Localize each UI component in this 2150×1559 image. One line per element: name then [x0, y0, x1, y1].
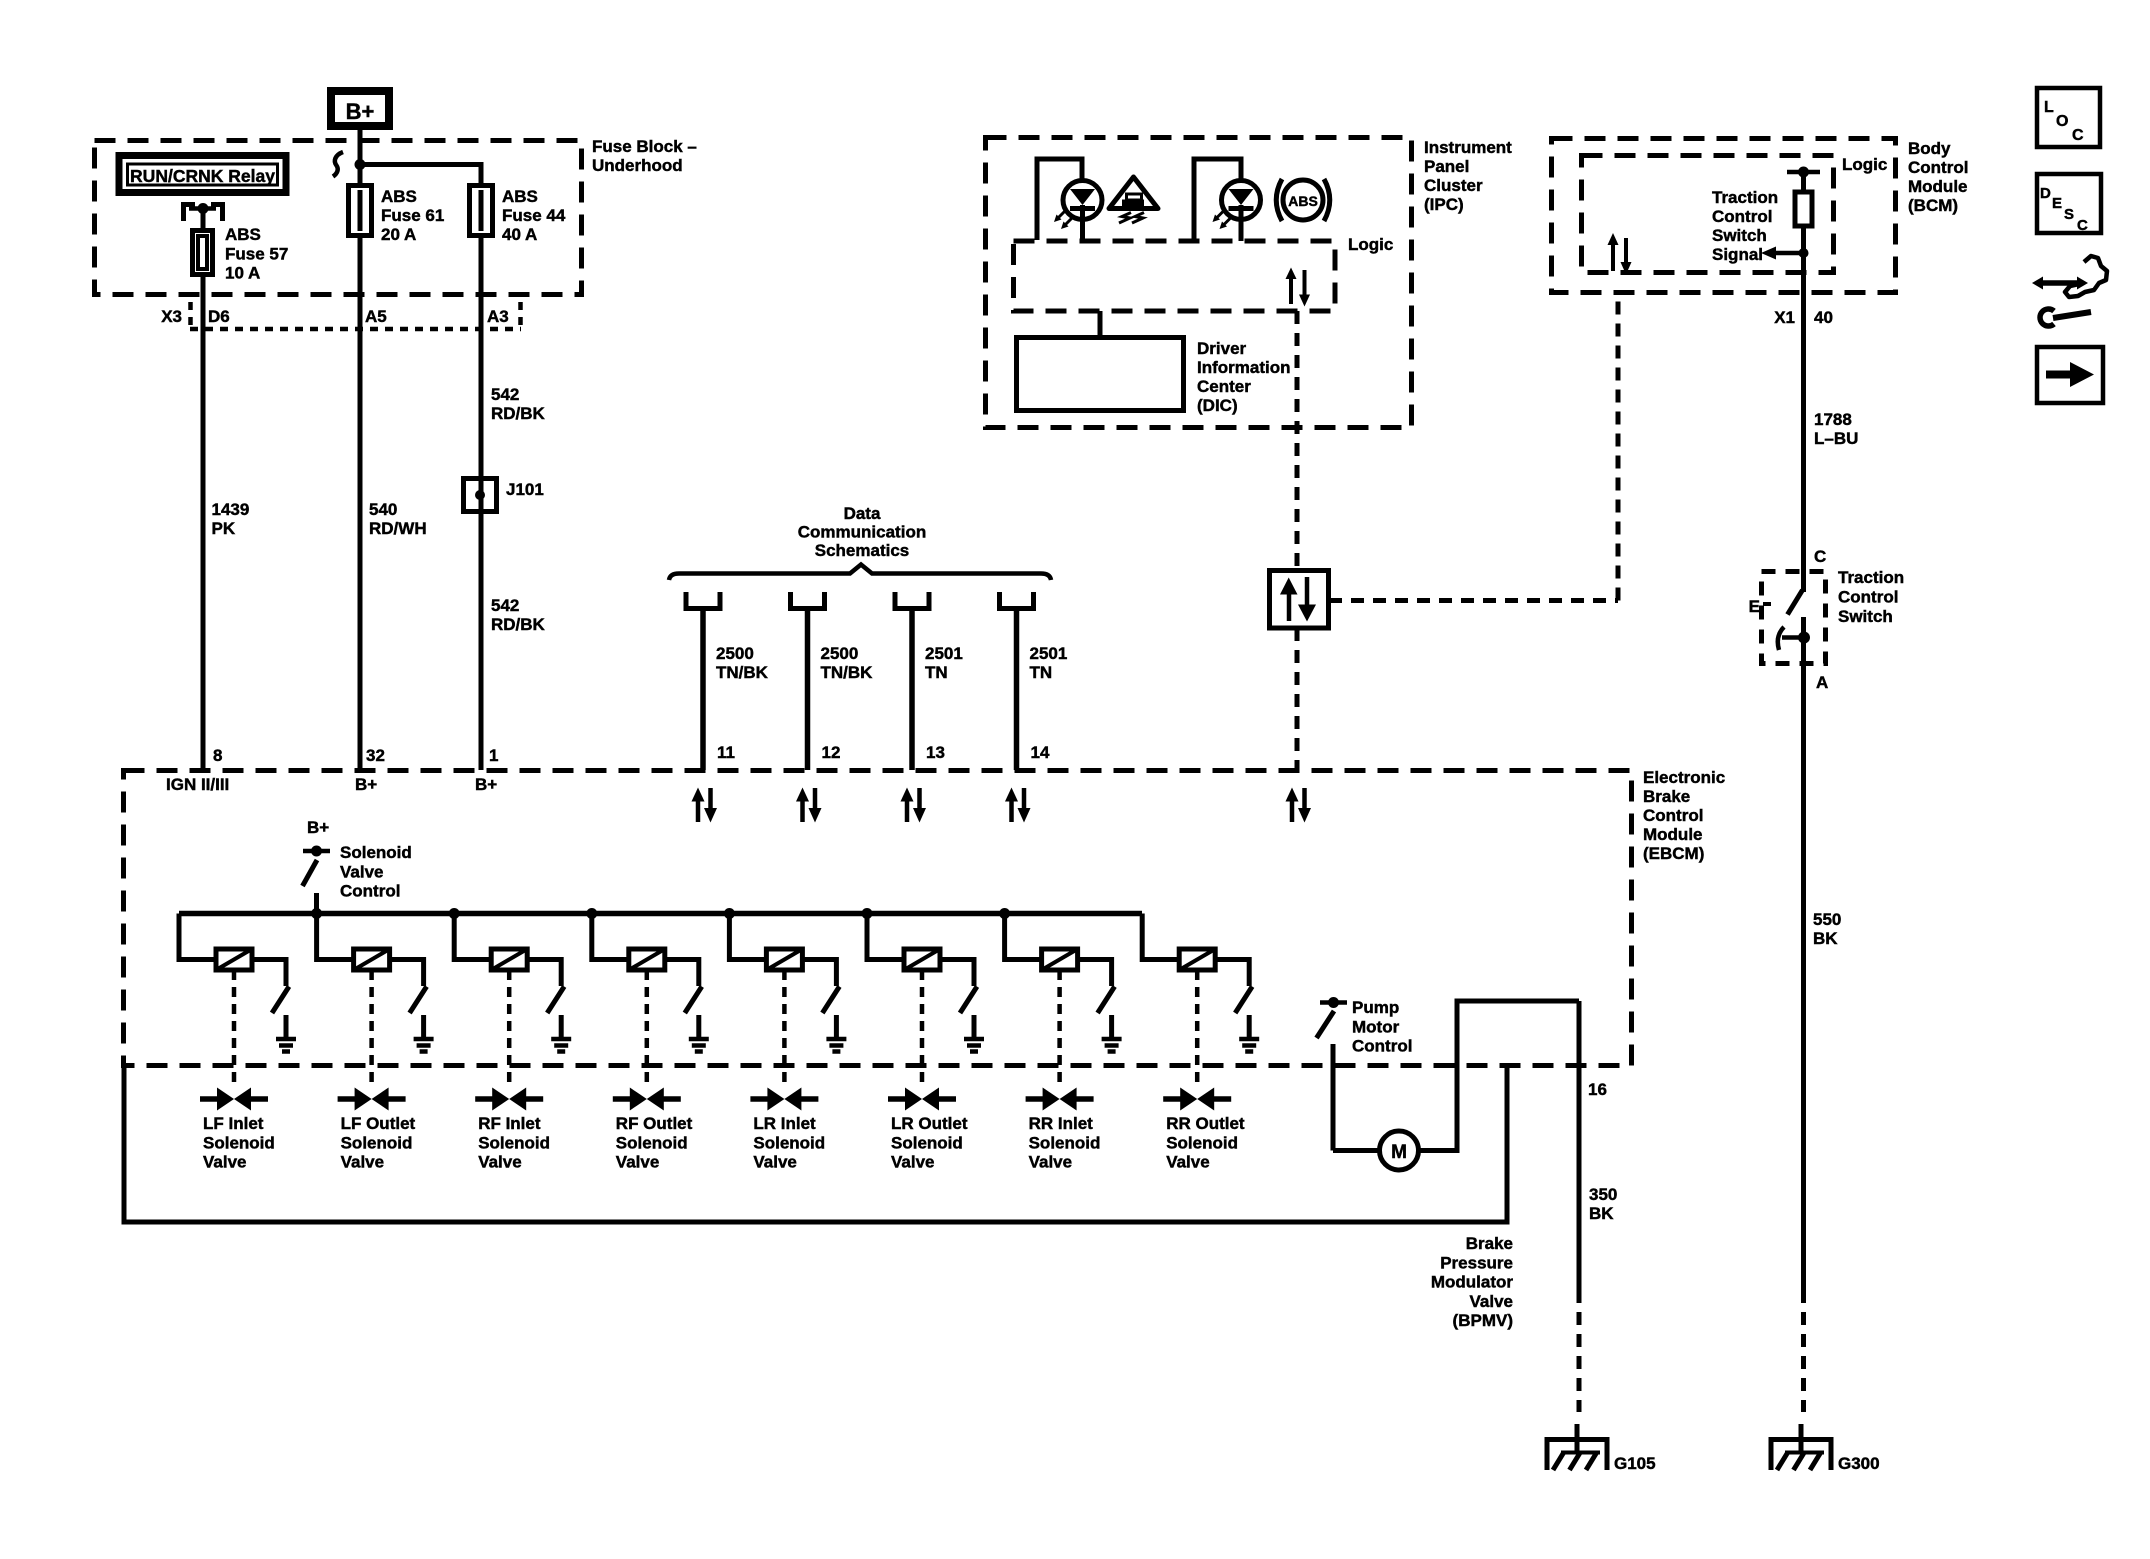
relay output clip terminal	[184, 203, 223, 221]
resistor pull-up BCM	[1795, 172, 1812, 226]
valve symbol RR Inlet Solenoid Valve	[1026, 1088, 1094, 1111]
svg-text:RF Inlet: RF Inlet	[478, 1114, 541, 1133]
svg-text:D6: D6	[208, 307, 230, 326]
svg-text:Body: Body	[1908, 139, 1951, 158]
svg-text:A5: A5	[365, 307, 387, 326]
wire serial data to BCM (horizontal)	[1329, 598, 1618, 603]
svg-text:2500: 2500	[716, 644, 754, 663]
relay RUN/CRNK Relay	[119, 156, 286, 193]
label 540 RD/WH	[369, 500, 427, 538]
wire coil to valve RR Outlet	[1195, 970, 1200, 1088]
svg-text:J101: J101	[506, 480, 544, 499]
svg-text:ABS: ABS	[381, 187, 417, 206]
svg-text:RD/BK: RD/BK	[491, 404, 546, 423]
wire coil to valve LF Inlet	[232, 970, 237, 1088]
brace over data lines	[669, 565, 1051, 581]
serial data arrows EBCM port 4	[1005, 788, 1031, 823]
label Body Control Module (BCM)	[1908, 139, 1968, 215]
svg-text:TN/BK: TN/BK	[821, 663, 874, 682]
fuse F44 ABS Fuse 44 40A	[470, 186, 493, 236]
svg-text:G300: G300	[1838, 1454, 1880, 1473]
svg-text:40: 40	[1814, 308, 1833, 327]
ground G105	[1547, 1424, 1607, 1470]
svg-text:X1: X1	[1774, 308, 1795, 327]
svg-text:Valve: Valve	[1470, 1292, 1514, 1311]
junction node bus tap 6	[862, 908, 873, 919]
wire relay to fuse 57	[201, 209, 206, 231]
svg-text:Valve: Valve	[340, 862, 384, 881]
solenoid coil RR Outlet Solenoid Valve	[1142, 914, 1215, 971]
ground G300	[1771, 1424, 1831, 1470]
svg-text:1788: 1788	[1814, 410, 1852, 429]
solenoid coil RR Inlet Solenoid Valve	[1005, 914, 1078, 971]
wire coil to valve RR Inlet	[1057, 970, 1062, 1088]
svg-text:C: C	[1814, 547, 1826, 566]
label ABS Fuse 61 20 A	[381, 187, 444, 244]
label 550 BK	[1813, 910, 1841, 948]
wire serial data 2500 TN/BK	[700, 609, 706, 771]
svg-text:Switch: Switch	[1712, 226, 1767, 245]
serial data junction box	[1270, 571, 1329, 629]
svg-text:M: M	[1391, 1142, 1407, 1163]
svg-text:1: 1	[489, 746, 498, 765]
driver switch RF Inlet	[527, 960, 564, 1040]
svg-text:Valve: Valve	[753, 1153, 797, 1172]
serial data arrows IPC logic	[1286, 268, 1311, 307]
label LF Outlet Solenoid Valve	[341, 1114, 416, 1172]
svg-text:12: 12	[822, 743, 841, 762]
ground chassis LR Inlet driver	[826, 1039, 846, 1052]
svg-text:(IPC): (IPC)	[1424, 195, 1464, 214]
svg-text:PK: PK	[212, 519, 236, 538]
switch box Traction Control Switch	[1762, 572, 1826, 664]
label Brake Pressure Modulator Valve (BPMV)	[1431, 1234, 1514, 1330]
svg-text:Module: Module	[1643, 825, 1703, 844]
label Fuse Block - Underhood	[592, 137, 697, 175]
label 2501 TN	[1030, 644, 1068, 682]
ground chassis LR Outlet driver	[964, 1039, 984, 1052]
label Solenoid Valve Control	[340, 843, 412, 901]
serial data arrows EBCM port 2	[796, 788, 822, 823]
junction node bus tap 3	[449, 908, 460, 919]
wire coil to valve LR Inlet	[782, 970, 787, 1088]
label Traction Control Switch Signal	[1712, 188, 1778, 264]
svg-text:Motor: Motor	[1352, 1017, 1400, 1036]
label Data Communication Schematics	[798, 504, 926, 560]
label RR Inlet Solenoid Valve	[1029, 1114, 1101, 1172]
wire from B+ box down to fuse block	[358, 130, 363, 187]
solenoid coil LF Outlet Solenoid Valve	[317, 914, 390, 971]
icon DESC box	[2037, 174, 2101, 234]
wire logic to DIC	[1098, 311, 1103, 338]
label ABS Fuse 44 40 A	[502, 187, 566, 244]
pin E	[1749, 597, 1771, 616]
serial data arrows EBCM port 5	[1286, 788, 1312, 823]
svg-text:Modulator: Modulator	[1431, 1273, 1514, 1292]
power symbol B+ feed box	[331, 91, 389, 126]
fuse F57 ABS Fuse 57 10A	[193, 231, 213, 275]
svg-text:Valve: Valve	[203, 1153, 247, 1172]
wire serial data 2501 TN	[909, 609, 915, 771]
svg-text:Valve: Valve	[1166, 1153, 1210, 1172]
junction node bus tap 7	[999, 908, 1010, 919]
svg-text:Center: Center	[1197, 377, 1251, 396]
svg-text:10 A: 10 A	[225, 264, 260, 283]
solenoid coil RF Inlet Solenoid Valve	[454, 914, 527, 971]
internal node tick BCM	[1787, 167, 1820, 178]
solenoid coil LR Inlet Solenoid Valve	[729, 914, 802, 971]
wire coil to valve LR Outlet	[920, 970, 925, 1088]
driver switch LR Inlet	[802, 960, 839, 1040]
module box Electronic Brake Control Module EBCM	[124, 771, 1632, 1066]
wire serial data splice box to EBCM	[1295, 628, 1300, 770]
svg-text:G105: G105	[1614, 1454, 1656, 1473]
svg-text:LF Outlet: LF Outlet	[341, 1114, 416, 1133]
svg-text:Control: Control	[1352, 1037, 1412, 1056]
label RF Outlet Solenoid Valve	[616, 1114, 693, 1172]
ground chassis LF Inlet driver	[276, 1039, 296, 1052]
svg-text:B+: B+	[355, 775, 377, 794]
svg-text:Electronic: Electronic	[1643, 768, 1725, 787]
label 542 RD/BK lower	[491, 596, 546, 634]
icon traction control triangle	[1109, 177, 1158, 223]
label Pump Motor Control	[1352, 998, 1412, 1056]
svg-text:Valve: Valve	[616, 1153, 660, 1172]
junction node B+ distribution	[355, 159, 366, 170]
svg-text:BK: BK	[1589, 1204, 1614, 1223]
svg-text:542: 542	[491, 596, 519, 615]
driver switch LF Outlet	[390, 960, 427, 1040]
svg-text:2500: 2500	[821, 644, 859, 663]
valve symbol LR Inlet Solenoid Valve	[750, 1088, 818, 1111]
svg-text:11: 11	[717, 743, 735, 762]
svg-text:Solenoid: Solenoid	[478, 1133, 550, 1152]
svg-text:C: C	[2072, 127, 2084, 144]
svg-text:Control: Control	[1712, 207, 1772, 226]
solenoid coil LF Inlet Solenoid Valve	[179, 914, 252, 971]
svg-text:TN: TN	[925, 663, 948, 682]
svg-text:Communication: Communication	[798, 523, 926, 542]
icon LOC box	[2037, 88, 2100, 147]
svg-text:X3: X3	[161, 307, 182, 326]
svg-text:Switch: Switch	[1838, 607, 1893, 626]
svg-text:Schematics: Schematics	[815, 541, 910, 560]
svg-text:13: 13	[926, 743, 945, 762]
wire coil to valve RF Inlet	[507, 970, 512, 1088]
svg-text:RUN/CRNK Relay: RUN/CRNK Relay	[130, 166, 275, 186]
switch pump motor control	[1317, 997, 1348, 1151]
solenoid coil RF Outlet Solenoid Valve	[592, 914, 665, 971]
svg-text:Valve: Valve	[478, 1153, 522, 1172]
svg-text:Solenoid: Solenoid	[1166, 1133, 1238, 1152]
svg-text:Solenoid: Solenoid	[340, 843, 412, 862]
svg-text:ABS: ABS	[225, 225, 261, 244]
svg-text:Information: Information	[1197, 358, 1291, 377]
svg-text:IGN II/III: IGN II/III	[166, 775, 229, 794]
svg-text:RF Outlet: RF Outlet	[616, 1114, 693, 1133]
wire 540 RD/WH battery feed	[358, 235, 363, 770]
svg-text:14: 14	[1031, 743, 1050, 762]
ground chassis LF Outlet driver	[414, 1039, 434, 1052]
splice J101	[464, 479, 497, 512]
svg-text:LR Outlet: LR Outlet	[891, 1114, 968, 1133]
svg-text:B+: B+	[346, 99, 375, 124]
svg-text:L–BU: L–BU	[1814, 429, 1858, 448]
valve symbol RF Inlet Solenoid Valve	[475, 1088, 543, 1111]
svg-text:Fuse 44: Fuse 44	[502, 206, 566, 225]
junction node bus tap 4	[586, 908, 597, 919]
svg-text:Fuse 57: Fuse 57	[225, 244, 288, 263]
svg-text:L: L	[2044, 99, 2054, 116]
logic box IPC	[1014, 241, 1336, 311]
svg-text:D: D	[2040, 185, 2051, 202]
tap hook at B+ node	[333, 152, 343, 177]
svg-text:Pump: Pump	[1352, 998, 1399, 1017]
svg-text:Logic: Logic	[1348, 235, 1393, 254]
svg-text:Solenoid: Solenoid	[1029, 1133, 1101, 1152]
svg-text:32: 32	[366, 746, 385, 765]
svg-text:Traction: Traction	[1712, 188, 1778, 207]
logic box BCM	[1582, 156, 1834, 273]
svg-text:8: 8	[213, 746, 222, 765]
svg-text:B+: B+	[475, 775, 497, 794]
indicator lamp ABS warning	[1194, 159, 1261, 241]
svg-text:ABS: ABS	[502, 187, 538, 206]
svg-text:540: 540	[369, 500, 397, 519]
connector terminal data line 3	[895, 592, 929, 609]
svg-text:Logic: Logic	[1842, 155, 1887, 174]
svg-text:Control: Control	[1908, 158, 1968, 177]
valve symbol RF Outlet Solenoid Valve	[613, 1088, 681, 1111]
svg-text:Underhood: Underhood	[592, 156, 683, 175]
label Electronic Brake Control Module (EBCM)	[1643, 768, 1725, 863]
label LF Inlet Solenoid Valve	[203, 1114, 275, 1172]
svg-text:RR Outlet: RR Outlet	[1166, 1114, 1245, 1133]
svg-text:Pressure: Pressure	[1440, 1253, 1513, 1272]
label 1439 PK	[212, 500, 250, 538]
wire coil to valve RF Outlet	[645, 970, 650, 1088]
fuse block box Fuse Block - Underhood	[95, 141, 582, 295]
svg-text:Control: Control	[1838, 588, 1898, 607]
label 2500 TN/BK	[821, 644, 874, 682]
svg-text:350: 350	[1589, 1185, 1617, 1204]
label RR Outlet Solenoid Valve	[1166, 1114, 1245, 1172]
valve symbol RR Outlet Solenoid Valve	[1163, 1088, 1231, 1111]
svg-text:(EBCM): (EBCM)	[1643, 844, 1704, 863]
icon ABS symbol	[1276, 179, 1330, 221]
label LR Inlet Solenoid Valve	[753, 1114, 825, 1172]
svg-text:Valve: Valve	[891, 1153, 935, 1172]
motor M pump	[1333, 1131, 1419, 1170]
svg-text:Panel: Panel	[1424, 157, 1469, 176]
svg-text:S: S	[2064, 206, 2074, 223]
wire serial data riser to BCM	[1616, 293, 1621, 601]
icon forward arrow box	[2037, 347, 2103, 403]
enclosure Brake Pressure Modulator Valve BPMV	[124, 1066, 1507, 1222]
svg-text:Cluster: Cluster	[1424, 176, 1483, 195]
svg-text:TN/BK: TN/BK	[716, 663, 769, 682]
label ABS Fuse 57 10 A	[225, 225, 288, 283]
svg-text:Solenoid: Solenoid	[891, 1133, 963, 1152]
fuse F61 ABS Fuse 61 20A	[349, 130, 372, 236]
svg-text:A: A	[1816, 673, 1828, 692]
svg-text:Signal: Signal	[1712, 245, 1763, 264]
label RF Inlet Solenoid Valve	[478, 1114, 550, 1172]
connector terminal data line 4	[1000, 592, 1034, 609]
svg-text:Fuse Block –: Fuse Block –	[592, 137, 697, 156]
solenoid coil LR Outlet Solenoid Valve	[867, 914, 940, 971]
wire branch to fuse 44	[360, 165, 481, 188]
indicator lamp traction warning	[1037, 159, 1102, 241]
svg-text:(BPMV): (BPMV)	[1453, 1311, 1513, 1330]
svg-text:16: 16	[1588, 1080, 1607, 1099]
label 2500 TN/BK	[716, 644, 769, 682]
serial data arrows EBCM port 3	[901, 788, 927, 823]
ground chassis RR Outlet driver	[1239, 1039, 1259, 1052]
svg-text:LF Inlet: LF Inlet	[203, 1114, 264, 1133]
driver switch LF Inlet	[252, 960, 289, 1040]
svg-text:Solenoid: Solenoid	[753, 1133, 825, 1152]
svg-text:Solenoid: Solenoid	[341, 1133, 413, 1152]
svg-text:Module: Module	[1908, 177, 1968, 196]
svg-text:E: E	[2052, 195, 2062, 212]
label 2501 TN	[925, 644, 963, 682]
svg-text:Valve: Valve	[1029, 1153, 1073, 1172]
wire 550 BK	[1801, 664, 1806, 1412]
wire 1439 PK ignition feed	[201, 274, 206, 770]
wire serial data 2500 TN/BK	[805, 609, 811, 771]
valve symbol LF Inlet Solenoid Valve	[200, 1088, 268, 1111]
svg-text:Valve: Valve	[341, 1153, 385, 1172]
svg-text:O: O	[2056, 113, 2068, 130]
wire serial data 2501 TN	[1014, 609, 1020, 771]
svg-text:RD/BK: RD/BK	[491, 615, 546, 634]
driver switch RR Inlet	[1078, 960, 1115, 1040]
wire 350 BK	[1577, 1001, 1582, 1412]
serial data arrows BCM logic	[1608, 233, 1632, 275]
junction node bus tap 2	[311, 908, 322, 919]
svg-text:550: 550	[1813, 910, 1841, 929]
svg-text:TN: TN	[1030, 663, 1053, 682]
label LR Outlet Solenoid Valve	[891, 1114, 968, 1172]
svg-text:Instrument: Instrument	[1424, 138, 1512, 157]
svg-text:20 A: 20 A	[381, 225, 416, 244]
svg-text:C: C	[2077, 217, 2088, 234]
svg-text:Solenoid: Solenoid	[203, 1133, 275, 1152]
svg-text:Control: Control	[340, 882, 400, 901]
ground chassis RF Inlet driver	[551, 1039, 571, 1052]
svg-text:1439: 1439	[212, 500, 250, 519]
svg-text:Traction: Traction	[1838, 568, 1904, 587]
label Driver Information Center (DIC)	[1197, 339, 1291, 415]
svg-text:Brake: Brake	[1643, 787, 1690, 806]
driver switch LR Outlet	[940, 960, 977, 1040]
svg-text:RR Inlet: RR Inlet	[1029, 1114, 1094, 1133]
serial data arrows EBCM port 1	[692, 788, 718, 823]
wire coil to valve LF Outlet	[369, 970, 374, 1088]
wire solenoid supply bus	[179, 911, 1142, 917]
svg-text:542: 542	[491, 385, 519, 404]
label 542 RD/BK upper	[491, 385, 546, 423]
svg-text:2501: 2501	[925, 644, 963, 663]
label Traction Control Switch	[1838, 568, 1904, 626]
svg-text:Fuse 61: Fuse 61	[381, 206, 444, 225]
svg-text:ABS: ABS	[1288, 193, 1318, 209]
connector terminal data line 2	[791, 592, 825, 609]
svg-text:Solenoid: Solenoid	[616, 1133, 688, 1152]
signal arrow Traction Control Switch Signal	[1761, 247, 1809, 260]
module box Instrument Panel Cluster IPC	[986, 138, 1412, 428]
icon vehicle data arrow and wrench	[2032, 256, 2107, 326]
wire serial data IPC to splice box	[1295, 311, 1300, 570]
label 350 BK	[1589, 1185, 1617, 1223]
wire pump motor to pin 16	[1419, 1001, 1580, 1151]
ground chassis RR Inlet driver	[1102, 1039, 1122, 1052]
module box Body Control Module BCM	[1552, 139, 1896, 293]
svg-text:E: E	[1749, 597, 1760, 616]
ground chassis RF Outlet driver	[689, 1039, 709, 1052]
valve symbol LF Outlet Solenoid Valve	[338, 1088, 406, 1111]
svg-text:2501: 2501	[1030, 644, 1068, 663]
svg-text:(BCM): (BCM)	[1908, 196, 1958, 215]
svg-text:A3: A3	[487, 307, 509, 326]
driver switch RR Outlet	[1215, 960, 1252, 1040]
driver switch RF Outlet	[665, 960, 702, 1040]
label 1788 L-BU	[1814, 410, 1858, 448]
wire resistor to output	[1801, 226, 1806, 571]
junction node bus tap 5	[724, 908, 735, 919]
switch blade traction control	[1778, 571, 1810, 664]
connector terminal data line 1	[686, 592, 720, 609]
svg-text:Brake: Brake	[1466, 1234, 1513, 1253]
display box Driver Information Center DIC	[1017, 338, 1184, 411]
svg-text:Data: Data	[844, 504, 881, 523]
svg-text:Control: Control	[1643, 806, 1703, 825]
wire 542 RD/BK battery feed	[479, 235, 484, 770]
svg-text:B+: B+	[307, 818, 329, 837]
valve symbol LR Outlet Solenoid Valve	[888, 1088, 956, 1111]
svg-text:40 A: 40 A	[502, 225, 537, 244]
switch solenoid valve control	[303, 846, 331, 915]
svg-text:RD/WH: RD/WH	[369, 519, 427, 538]
label Instrument Panel Cluster (IPC)	[1424, 138, 1512, 214]
svg-text:LR Inlet: LR Inlet	[753, 1114, 816, 1133]
svg-text:(DIC): (DIC)	[1197, 396, 1238, 415]
connector row X3 of fuse block	[190, 302, 521, 329]
svg-text:BK: BK	[1813, 929, 1838, 948]
svg-text:Driver: Driver	[1197, 339, 1247, 358]
